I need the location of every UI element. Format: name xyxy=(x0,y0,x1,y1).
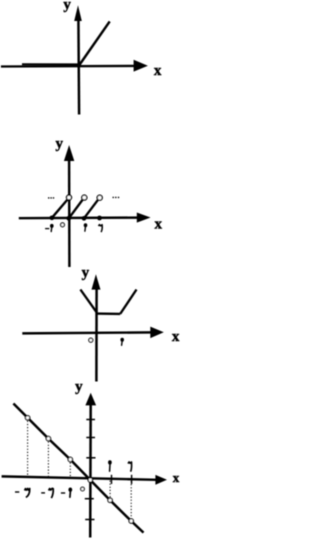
label 2 (graph 2) xyxy=(98,225,102,233)
function segment from (0,0) to (1,1) (graph 2) xyxy=(69,200,83,218)
label -2 (graph 4) xyxy=(41,488,53,498)
open circle at (2,-2) (graph 4) xyxy=(129,519,133,523)
closed dot at (1,0) (graph 2) xyxy=(82,216,87,221)
function segment from (-1,0) to (0,1) (graph 2) xyxy=(52,200,67,218)
closed dot at (-1,0) (graph 2) xyxy=(50,215,55,220)
y-axis (graph 3) xyxy=(92,274,101,381)
dotted drop line at x=-2 (graph 4) xyxy=(47,442,49,478)
label 0 as small circle (graph 2) xyxy=(61,223,65,227)
x-axis (graph 4) xyxy=(2,475,167,485)
x-axis tick at x=1 (graph 4) xyxy=(111,475,113,484)
dotted drop line at x=-3 (graph 4) xyxy=(27,421,29,477)
svg-text:y: y xyxy=(55,136,63,152)
svg-text:x: x xyxy=(154,63,162,79)
function: right ascending segment (graph 3) xyxy=(120,290,136,314)
dotted riser line at x=2 (graph 4) xyxy=(130,481,132,518)
label 2 above axis (graph 4) xyxy=(128,462,132,472)
function: flat bottom segment (graph 3) xyxy=(96,312,120,315)
y-axis (graph 1) xyxy=(74,5,82,114)
label 0 as small circle (graph 3) xyxy=(89,338,93,342)
svg-text:y: y xyxy=(63,0,71,13)
line y=-x (graph 4) xyxy=(13,404,143,533)
function segment from (1,0) to (2,1) (graph 2) xyxy=(84,200,98,218)
label 1 (graph 2) xyxy=(84,224,87,232)
open circle at (1,-1) (graph 4) xyxy=(108,498,112,502)
label -1 (graph 2) xyxy=(45,224,53,231)
svg-text:y: y xyxy=(82,265,90,281)
closed dot at (2,0) (graph 2) xyxy=(97,216,102,221)
function: ray from origin (graph 1) xyxy=(79,21,110,65)
label 0 as small circle (graph 4) xyxy=(81,487,85,491)
label 1 (graph 3) xyxy=(121,338,124,345)
x-axis (graph 3) xyxy=(22,327,164,339)
dotted drop line at x=-1 (graph 4) xyxy=(69,463,71,478)
function: flat segment on negative x (graph 1) xyxy=(22,63,79,65)
y-axis tick at y=-2 (graph 4) xyxy=(85,519,94,521)
svg-text:x: x xyxy=(173,470,180,485)
open circle at (-2,2) (graph 4) xyxy=(46,436,50,440)
open circle at (-3,3) (graph 4) xyxy=(25,416,29,420)
x-axis (graph 2) xyxy=(19,213,151,223)
x-axis (graph 1) xyxy=(1,60,148,72)
y-axis tick at y=-1 (graph 4) xyxy=(85,498,94,500)
open circle at (1,1) (graph 2) xyxy=(82,195,87,200)
y-axis tick at y=2 (graph 4) xyxy=(86,437,95,439)
y-axis tick at y=1 (graph 4) xyxy=(86,457,95,459)
open circle at (-1,1) (graph 4) xyxy=(68,457,72,461)
svg-text:x: x xyxy=(154,216,162,232)
y-axis (graph 4) xyxy=(85,393,96,538)
function: left descending segment (graph 3) xyxy=(80,290,96,313)
open circle at (0,1) (graph 2) xyxy=(67,195,72,200)
svg-text:x: x xyxy=(172,329,180,345)
y-axis (graph 2) xyxy=(64,145,74,267)
ellipsis dots left (graph 2) xyxy=(48,197,54,199)
ellipsis dots right (graph 2) xyxy=(112,197,119,199)
open circle at (2,1) (graph 2) xyxy=(97,195,102,200)
label -1 (graph 4) xyxy=(61,488,72,497)
closed dot at (0,0) (graph 2) xyxy=(66,216,71,221)
label 1 above axis (graph 4) xyxy=(109,461,112,472)
label -3 (graph 4) xyxy=(15,489,30,498)
y-axis tick at y=3 (graph 4) xyxy=(86,419,95,421)
dotted riser line at x=1 (graph 4) xyxy=(109,481,111,498)
x-axis tick at x=2 (graph 4) xyxy=(131,475,133,484)
open circle at origin (graph 4) xyxy=(88,478,92,482)
svg-text:y: y xyxy=(75,379,83,395)
